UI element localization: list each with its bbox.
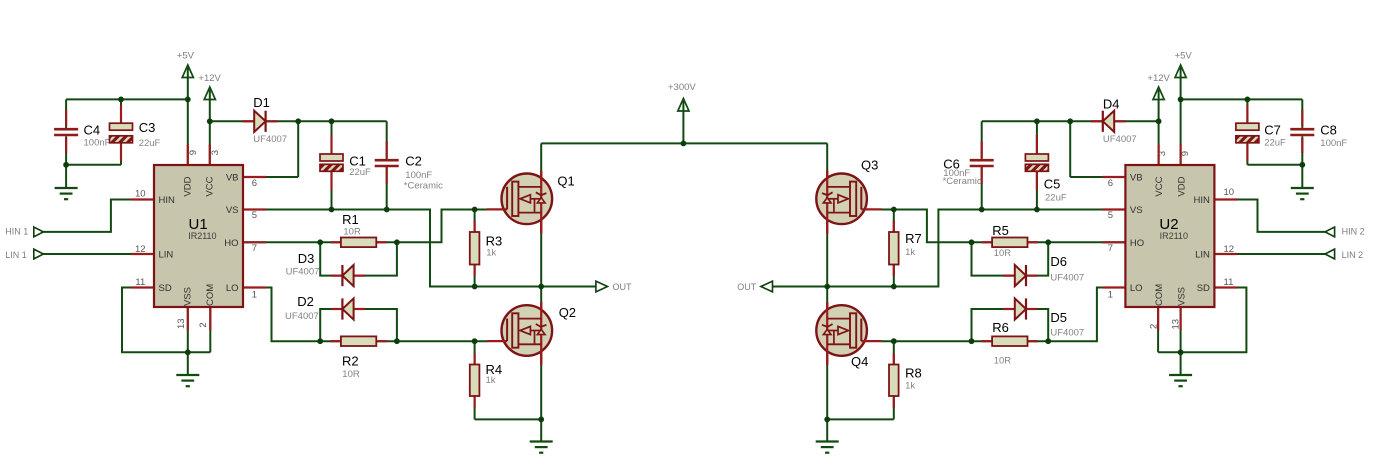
terminal OUT left: [596, 281, 632, 292]
svg-text:C3: C3: [139, 120, 156, 135]
svg-text:11: 11: [1224, 277, 1234, 288]
svg-text:22uF: 22uF: [349, 167, 371, 178]
wire Q1 drain: [540, 143, 542, 286]
wire D6 loop: [972, 242, 1049, 275]
resistor R2: [341, 336, 376, 380]
svg-text:Q4: Q4: [851, 354, 868, 369]
svg-text:R1: R1: [342, 212, 359, 227]
U2 pin names: [1130, 173, 1210, 306]
U1 pin numbers: [135, 150, 257, 329]
svg-text:1k: 1k: [905, 381, 915, 392]
wire C6 bottom: [981, 166, 983, 210]
wire Q2 source to ground rail: [475, 287, 542, 442]
svg-text:UF4007: UF4007: [1103, 134, 1137, 145]
terminal HIN1: [5, 226, 43, 236]
svg-text:UF4007: UF4007: [1050, 327, 1084, 338]
svg-text:UF4007: UF4007: [285, 311, 319, 322]
svg-text:C8: C8: [1320, 122, 1337, 137]
pin stubs U1: [131, 145, 266, 331]
power flag +12V right: [1147, 73, 1170, 100]
wire C5 bottom: [1036, 170, 1038, 210]
ground under Q2: [530, 442, 553, 453]
svg-text:5: 5: [1108, 210, 1113, 221]
wire D2 loop: [320, 309, 397, 341]
svg-text:C7: C7: [1264, 122, 1281, 137]
resistor R1: [341, 212, 376, 247]
ground under Q4: [816, 442, 839, 453]
wire Q3 drain: [826, 143, 828, 286]
wire R4 top/bottom: [474, 341, 476, 419]
svg-text:3: 3: [1157, 151, 1168, 156]
svg-text:VS: VS: [1130, 205, 1143, 216]
pin stubs Q1 Q2 drains: [540, 171, 542, 365]
terminal HIN2: [1325, 226, 1365, 236]
svg-text:SD: SD: [1197, 283, 1210, 294]
svg-text:HIN 2: HIN 2: [1342, 226, 1365, 236]
transistor Q4: [816, 302, 881, 369]
wire LIN1 input: [43, 253, 154, 255]
wire D3 loop: [320, 242, 397, 275]
svg-text:R5: R5: [992, 223, 1009, 238]
transistor Q1: [487, 171, 575, 234]
wire D5 loop: [972, 309, 1049, 341]
svg-text:R7: R7: [905, 231, 922, 246]
pin stubs U2: [1102, 145, 1237, 331]
svg-text:R6: R6: [992, 320, 1009, 335]
svg-text:LIN 2: LIN 2: [1342, 250, 1364, 260]
svg-text:VB: VB: [1130, 173, 1143, 184]
diode D6: [1015, 254, 1084, 286]
junction dots left: [63, 97, 686, 423]
diode D2: [285, 294, 354, 322]
svg-text:HO: HO: [1130, 238, 1144, 249]
wire VB net right: [982, 121, 1159, 177]
svg-text:C2: C2: [405, 154, 422, 169]
svg-text:100nF: 100nF: [1320, 138, 1347, 149]
resistor R5: [992, 223, 1027, 259]
capacitor C7: [1236, 122, 1286, 148]
wire VB net left: [210, 121, 387, 177]
power flag +5V left: [177, 51, 195, 78]
pin stubs caps right: [982, 105, 1303, 190]
wire R6 out to gate Q4: [881, 340, 992, 342]
svg-text:LIN: LIN: [1195, 250, 1210, 261]
wire R1 out to gate Q1: [376, 210, 487, 243]
diode D1: [253, 95, 287, 145]
wire LO to R6: [1028, 288, 1126, 342]
svg-text:Q2: Q2: [559, 305, 576, 320]
wire HIN1 input: [43, 200, 154, 232]
ground under C4: [55, 188, 78, 199]
svg-text:VS: VS: [226, 205, 239, 216]
wire HO to R5: [1028, 241, 1126, 243]
wire VSS drop right: [1180, 307, 1182, 375]
capacitor C4: [54, 122, 111, 148]
capacitor C1: [320, 154, 371, 178]
svg-text:HIN 1: HIN 1: [5, 226, 28, 236]
wire +5V/VDD rail right: [1181, 68, 1303, 166]
wire R3 top/bottom: [474, 210, 476, 287]
wire R7 top/bottom: [893, 210, 895, 287]
wire C1 bottom: [331, 170, 333, 210]
svg-text:Q3: Q3: [861, 157, 878, 172]
ground under U1: [176, 375, 199, 386]
svg-text:9: 9: [1180, 151, 1191, 156]
svg-text:IR2110: IR2110: [1160, 231, 1188, 241]
svg-text:VSS: VSS: [1176, 287, 1187, 306]
svg-text:IR2110: IR2110: [188, 231, 216, 241]
svg-text:C4: C4: [84, 122, 101, 137]
resistor R3: [470, 232, 502, 265]
svg-text:VCC: VCC: [204, 176, 215, 196]
resistor R8: [889, 365, 922, 397]
U1 pin names: [159, 173, 239, 306]
wire C7-C8 bottom rail right: [1247, 99, 1302, 188]
svg-text:10R: 10R: [994, 248, 1012, 259]
wire VS net left: [243, 210, 596, 287]
svg-text:*Ceramic: *Ceramic: [404, 180, 443, 191]
wire R2 out to gate Q2: [376, 340, 487, 342]
svg-text:LO: LO: [1130, 283, 1143, 294]
pin stubs caps left: [66, 105, 387, 190]
power flag +300V: [668, 82, 696, 111]
pin stubs R/D right: [894, 121, 1126, 407]
svg-text:VCC: VCC: [1154, 176, 1165, 196]
svg-text:22uF: 22uF: [1264, 138, 1286, 149]
svg-text:22uF: 22uF: [1045, 193, 1067, 204]
capacitor C6: [943, 156, 994, 187]
svg-text:13: 13: [1170, 319, 1181, 330]
svg-text:COM: COM: [1154, 284, 1165, 306]
terminal LIN1: [5, 249, 43, 260]
svg-text:UF4007: UF4007: [1050, 272, 1084, 283]
capacitor C8: [1290, 122, 1347, 149]
svg-text:LIN: LIN: [159, 250, 174, 261]
svg-text:1k: 1k: [486, 375, 496, 386]
wire C4-C3 bottom rail left: [66, 99, 121, 188]
svg-text:D6: D6: [1050, 254, 1067, 269]
svg-text:R8: R8: [905, 365, 922, 380]
resistor R7: [889, 231, 922, 264]
svg-text:1: 1: [252, 289, 257, 300]
wire R5 out to gate Q3: [881, 210, 992, 243]
svg-text:VB: VB: [226, 173, 239, 184]
resistor R6: [992, 320, 1027, 366]
svg-text:HO: HO: [224, 238, 238, 249]
svg-text:OUT: OUT: [737, 282, 757, 292]
capacitor C3: [110, 120, 161, 149]
svg-text:+12V: +12V: [1147, 73, 1170, 84]
svg-text:+12V: +12V: [198, 73, 221, 84]
svg-text:100nF: 100nF: [84, 138, 111, 149]
svg-text:D1: D1: [253, 95, 270, 110]
svg-text:22uF: 22uF: [139, 138, 161, 149]
wire +5V/VDD rail left: [66, 68, 188, 166]
svg-text:11: 11: [135, 277, 145, 288]
svg-text:10R: 10R: [342, 369, 360, 380]
svg-text:1k: 1k: [905, 247, 915, 258]
svg-text:6: 6: [1108, 178, 1113, 189]
wire HIN2 input: [1214, 200, 1325, 232]
svg-text:1: 1: [1108, 289, 1113, 300]
svg-text:+5V: +5V: [177, 51, 195, 62]
svg-text:+300V: +300V: [668, 82, 696, 93]
svg-text:HIN: HIN: [159, 195, 176, 206]
svg-text:LO: LO: [226, 283, 239, 294]
svg-text:UF4007: UF4007: [253, 134, 287, 145]
svg-text:13: 13: [176, 318, 187, 329]
svg-text:10R: 10R: [994, 355, 1012, 366]
pin stubs R/D left: [243, 121, 475, 407]
capacitor C2: [375, 154, 443, 192]
svg-text:10R: 10R: [343, 227, 361, 238]
resistor R4: [470, 362, 502, 396]
transistor Q3: [816, 157, 881, 233]
transistor Q2: [487, 302, 576, 365]
wire HO to R1 left: [243, 241, 341, 243]
pin stubs Q3 Q4 drains: [826, 171, 828, 365]
svg-text:7: 7: [1108, 243, 1113, 254]
svg-text:HIN: HIN: [1194, 195, 1211, 206]
wire Q4 source to ground rail: [827, 287, 894, 442]
svg-text:6: 6: [252, 178, 257, 189]
wire VSS drop left: [187, 307, 189, 375]
op-amp U2 body: [1125, 165, 1214, 307]
power flag +5V right: [1175, 51, 1193, 78]
wire C2 bottom: [386, 166, 388, 210]
wire COM drop left: [209, 307, 211, 352]
svg-text:D4: D4: [1103, 96, 1120, 111]
ground under U2: [1169, 375, 1192, 386]
wire SD loop right: [1158, 288, 1246, 353]
svg-text:VDD: VDD: [182, 176, 193, 196]
wire LO to R2 left: [243, 288, 341, 342]
svg-text:C5: C5: [1044, 177, 1061, 192]
svg-text:+5V: +5V: [1175, 51, 1193, 62]
op-amp U1 body: [154, 165, 243, 307]
svg-text:5: 5: [252, 210, 257, 221]
svg-text:D2: D2: [297, 294, 314, 309]
U2 pin numbers: [1108, 151, 1234, 330]
svg-text:2: 2: [198, 322, 209, 327]
svg-text:D3: D3: [298, 251, 315, 266]
capacitor C5: [1025, 154, 1066, 204]
svg-text:10: 10: [135, 189, 146, 200]
svg-text:7: 7: [252, 243, 257, 254]
svg-text:100nF: 100nF: [405, 170, 432, 181]
svg-text:R2: R2: [342, 353, 359, 368]
svg-text:D5: D5: [1050, 310, 1067, 325]
wire +300V rail: [541, 101, 827, 143]
svg-text:9: 9: [188, 150, 199, 155]
svg-text:3: 3: [210, 150, 221, 155]
svg-text:*Ceramic: *Ceramic: [943, 176, 982, 187]
power flag +12V left: [198, 73, 221, 100]
wire LIN2 input: [1214, 253, 1325, 255]
svg-text:LIN 1: LIN 1: [5, 250, 27, 260]
wire +12V/VCC drop right: [1158, 90, 1160, 166]
svg-text:12: 12: [135, 244, 146, 255]
diode D5: [1015, 298, 1084, 338]
wire R8 top/bottom: [893, 341, 895, 419]
svg-text:1k: 1k: [486, 247, 496, 258]
svg-text:VSS: VSS: [182, 287, 193, 306]
svg-text:R3: R3: [486, 233, 503, 248]
svg-text:12: 12: [1224, 244, 1235, 255]
diode D3: [286, 251, 354, 286]
svg-text:SD: SD: [159, 283, 172, 294]
diode D4: [1103, 96, 1137, 144]
wire COM drop right: [1157, 307, 1159, 352]
svg-text:UF4007: UF4007: [286, 266, 320, 277]
svg-text:2: 2: [1149, 324, 1160, 329]
terminal LIN2: [1325, 249, 1363, 260]
ground under C8: [1291, 188, 1314, 199]
svg-text:10: 10: [1224, 187, 1235, 198]
wire VS net right: [773, 210, 1126, 287]
svg-text:COM: COM: [205, 284, 216, 306]
svg-text:OUT: OUT: [613, 282, 633, 292]
svg-text:VDD: VDD: [1176, 176, 1187, 196]
wire +12V/VCC drop left: [209, 90, 211, 166]
terminal OUT right: [737, 281, 772, 292]
wire SD loop left: [122, 288, 210, 353]
svg-text:Q1: Q1: [557, 173, 574, 188]
junction dots right: [824, 97, 1305, 423]
